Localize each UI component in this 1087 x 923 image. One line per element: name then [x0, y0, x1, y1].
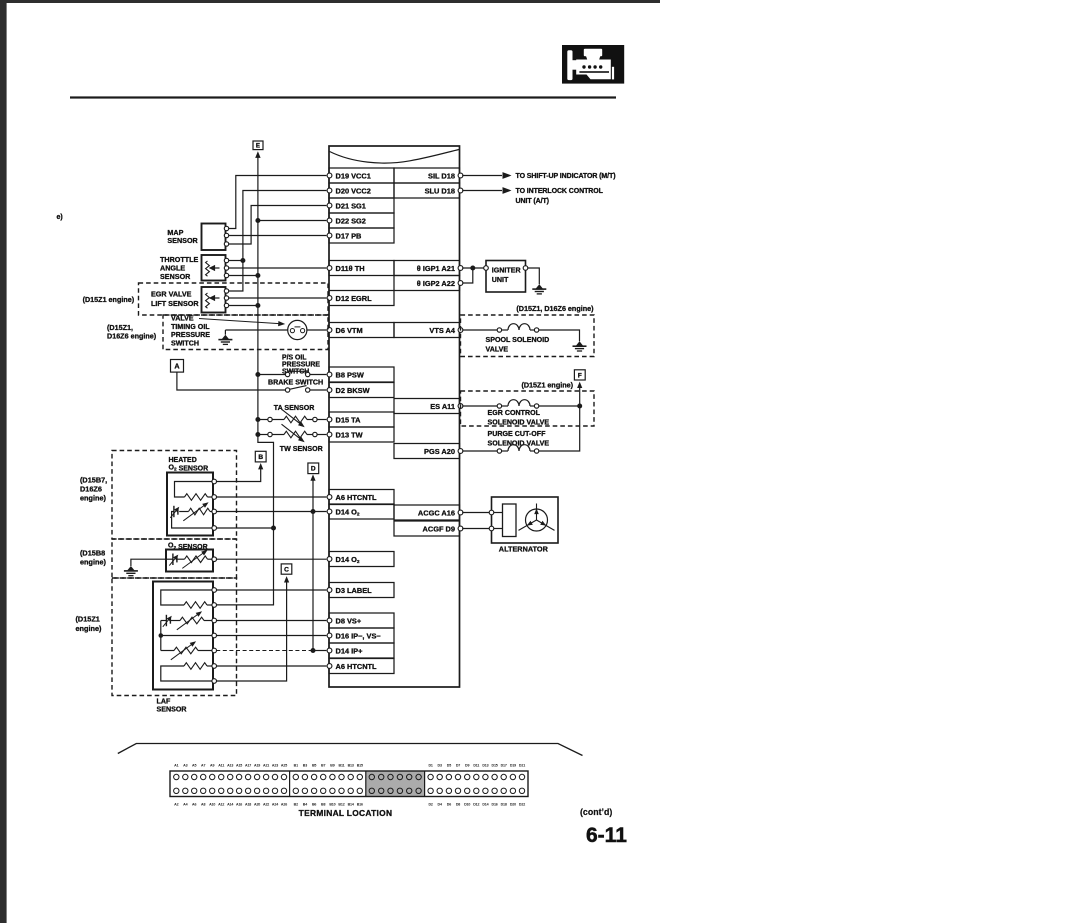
wire D21 SG1 to MAP sensor pin 3 — [229, 206, 327, 245]
ECU pin D15 TA — [327, 412, 394, 427]
svg-text:A9: A9 — [210, 764, 214, 768]
svg-text:SENSOR: SENSOR — [167, 236, 198, 245]
wire IGP2 A22 joining IGP1 — [462, 268, 473, 283]
TW sensor (coolant temperature) — [258, 424, 327, 453]
svg-text:VTS A4: VTS A4 — [429, 326, 455, 335]
wire D17 PB to MAP sensor pin 2 — [229, 235, 327, 237]
svg-text:SWITCH: SWITCH — [171, 340, 199, 348]
wire D19 VCC1 to MAP sensor pin 1 — [229, 176, 327, 229]
svg-text:D2: D2 — [428, 802, 432, 806]
svg-text:SENSOR: SENSOR — [157, 706, 187, 714]
svg-text:θ IGP1 A21: θ IGP1 A21 — [417, 264, 455, 273]
svg-text:(D15Z1 engine): (D15Z1 engine) — [83, 295, 135, 304]
wire VTM switch to ground — [225, 329, 287, 331]
heated O2 sensor — [167, 457, 217, 536]
svg-text:E: E — [256, 143, 260, 150]
svg-text:D17 PB: D17 PB — [336, 232, 362, 241]
wire LAF pin1 to D3 LABEL — [216, 589, 326, 591]
svg-text:D11: D11 — [473, 764, 479, 768]
ECU pin D19 VCC1 — [327, 168, 394, 183]
ECU pin D14 IP+ — [327, 643, 394, 658]
junction D-line at D14 IP+ — [311, 648, 316, 653]
svg-text:B3: B3 — [303, 764, 307, 768]
node E — [253, 141, 263, 150]
svg-text:B12: B12 — [338, 802, 344, 806]
wire throttle sensor pin 3 to ground bus — [229, 275, 258, 277]
svg-text:B16: B16 — [357, 802, 363, 806]
svg-text:D3: D3 — [438, 764, 442, 768]
svg-text:e): e) — [57, 214, 63, 221]
junction IGP wires — [470, 266, 475, 271]
valve timing oil pressure switch variant dashed box (D15Z1, D16Z6 engine) — [107, 314, 328, 349]
junction heater ground on bus — [271, 526, 276, 531]
svg-text:TW SENSOR: TW SENSOR — [280, 445, 323, 453]
svg-text:TO SHIFT-UP INDICATOR (M/T): TO SHIFT-UP INDICATOR (M/T) — [516, 173, 616, 180]
EGR control solenoid variant dashed box (D15Z1 engine) — [461, 380, 595, 426]
wire EGR lift sensor pin 3 to ground bus — [229, 305, 258, 307]
O2 sensor — [166, 543, 217, 572]
svg-text:LAF: LAF — [157, 697, 171, 705]
svg-text:D9: D9 — [465, 764, 469, 768]
svg-text:SIL D18: SIL D18 — [428, 172, 455, 181]
wire LAF pin6 to A6 HTCNTL (second) — [216, 665, 326, 667]
svg-text:A26: A26 — [281, 802, 287, 806]
node F — [574, 370, 585, 380]
engine section icon — [562, 45, 624, 84]
svg-text:B4: B4 — [303, 802, 307, 806]
wire D12 EGRL to EGR lift sensor pin 2 — [229, 297, 327, 299]
svg-text:B6: B6 — [312, 802, 316, 806]
wire heated O2 pin2 to A6 HTCNTL — [216, 496, 326, 498]
ECU pin SLU D18 — [394, 183, 463, 198]
svg-text:D13 TW: D13 TW — [336, 431, 363, 440]
ground at igniter unit — [532, 284, 546, 294]
brake switch — [268, 379, 326, 392]
svg-text:D14 O2: D14 O2 — [336, 555, 360, 565]
junction F line with solenoid wires — [577, 404, 582, 409]
svg-text:A4: A4 — [183, 802, 187, 806]
svg-text:D14: D14 — [482, 802, 488, 806]
wire sensor-ground bus from node E down to LAF sensor — [216, 151, 273, 605]
svg-text:(D15Z1 engine): (D15Z1 engine) — [521, 380, 573, 389]
svg-text:A8: A8 — [201, 802, 205, 806]
ECU pin D17 PB — [327, 228, 394, 243]
svg-text:A12: A12 — [218, 802, 224, 806]
svg-text:A3: A3 — [183, 764, 187, 768]
svg-text:B: B — [258, 454, 263, 461]
svg-text:A15: A15 — [236, 764, 242, 768]
terminal location connector — [170, 764, 528, 807]
svg-text:D8 VS+: D8 VS+ — [336, 617, 362, 626]
svg-text:VALVE: VALVE — [171, 314, 194, 322]
svg-text:D21: D21 — [519, 764, 525, 768]
svg-text:D14 O2: D14 O2 — [336, 508, 360, 518]
svg-text:D17: D17 — [501, 764, 507, 768]
svg-text:D4: D4 — [438, 802, 442, 806]
ECU pin SIL D18 — [394, 168, 463, 183]
alternator — [489, 497, 558, 553]
ECU pin B8 PSW — [327, 367, 394, 382]
wire D20 VCC2 power feed to throttle and EGR sensors — [229, 191, 327, 292]
svg-text:B11: B11 — [339, 764, 345, 768]
wire ACGF D9 to alternator — [462, 528, 489, 530]
svg-text:PRESSURE: PRESSURE — [282, 362, 320, 369]
svg-text:D8: D8 — [456, 802, 460, 806]
EGR control solenoid valve — [462, 400, 579, 427]
svg-text:D19: D19 — [510, 764, 516, 768]
wire LAF pin7 up to node C — [216, 576, 289, 681]
LAF sensor — [153, 582, 217, 714]
node D — [308, 463, 319, 474]
svg-text:A: A — [174, 361, 179, 370]
dash outline above terminal connector — [118, 744, 583, 756]
junction P/S switch on ground bus — [255, 372, 260, 377]
svg-text:D16Z6 engine): D16Z6 engine) — [107, 331, 157, 340]
svg-text:PRESSURE: PRESSURE — [171, 331, 210, 339]
wire D6 VTM to switch — [307, 329, 327, 331]
svg-text:PGS A20: PGS A20 — [424, 447, 455, 456]
svg-text:A24: A24 — [272, 802, 278, 806]
svg-text:engine): engine) — [80, 493, 107, 502]
svg-text:D1: D1 — [428, 764, 432, 768]
svg-text:D11θ TH: D11θ TH — [336, 264, 365, 273]
spool solenoid valve — [462, 324, 579, 354]
svg-text:A5: A5 — [192, 764, 196, 768]
svg-text:B14: B14 — [348, 802, 354, 806]
junction TA sensor on ground bus — [255, 417, 260, 422]
svg-text:TIMING OIL: TIMING OIL — [171, 323, 210, 331]
wire heated O2 pin4 to ground bus — [216, 527, 273, 529]
wire IGP1 A21 to igniter unit — [462, 267, 483, 269]
svg-text:HEATED: HEATED — [169, 457, 197, 464]
svg-text:engine): engine) — [76, 624, 103, 633]
svg-text:D21 SG1: D21 SG1 — [336, 202, 366, 211]
LAF sensor variant dashed box (D15Z1 engine) — [76, 578, 237, 696]
wire O2 sensor to D14 O2 (second) — [216, 558, 326, 560]
node C — [281, 564, 292, 574]
wire SIL D18 to shift-up indicator — [462, 172, 615, 180]
svg-text:ALTERNATOR: ALTERNATOR — [499, 544, 549, 553]
svg-text:D16 IP−, VS−: D16 IP−, VS− — [336, 632, 382, 641]
ECU pin D14 O2 — [327, 504, 394, 519]
svg-text:A17: A17 — [245, 764, 251, 768]
svg-text:A14: A14 — [227, 802, 233, 806]
ECU pin D8 VS+ — [327, 613, 394, 628]
svg-text:A16: A16 — [236, 802, 242, 806]
svg-text:D20: D20 — [510, 802, 516, 806]
svg-text:B8: B8 — [321, 802, 325, 806]
ECU pin D2 BKSW — [327, 383, 394, 398]
svg-text:SOLENOID VALVE: SOLENOID VALVE — [488, 418, 550, 426]
wire D11 TH to throttle sensor pin 2 — [229, 267, 327, 269]
svg-text:A10: A10 — [209, 802, 215, 806]
svg-text:A1: A1 — [174, 764, 178, 768]
ECU pin theta IGP2 A22 — [394, 276, 463, 291]
EGR valve lift sensor variant dashed box (D15Z1 engine) — [83, 283, 328, 315]
svg-text:B9: B9 — [330, 764, 334, 768]
wire ACGC A16 to alternator — [462, 512, 489, 514]
junction inside LAF sensor — [159, 633, 164, 638]
ECU pin D16 IP-,VS- — [327, 628, 394, 643]
svg-text:C: C — [284, 566, 289, 573]
junction EGR ground on bus — [255, 303, 260, 308]
svg-text:EGR VALVE: EGR VALVE — [151, 290, 192, 299]
svg-text:θ IGP2 A22: θ IGP2 A22 — [417, 279, 455, 288]
svg-text:A2: A2 — [174, 802, 178, 806]
svg-text:D16Z6: D16Z6 — [80, 484, 102, 493]
svg-text:ACGF D9: ACGF D9 — [423, 525, 455, 534]
wire LAF pin4 to D16 IP-,VS- — [216, 635, 326, 637]
svg-text:A18: A18 — [245, 802, 251, 806]
svg-text:B2: B2 — [294, 802, 298, 806]
svg-text:TERMINAL LOCATION: TERMINAL LOCATION — [299, 808, 393, 818]
spool solenoid variant dashed box (D15Z1, D16Z6 engine) — [461, 304, 595, 357]
svg-text:D12 EGRL: D12 EGRL — [336, 294, 373, 303]
wire D22 SG2 to ground bus — [258, 220, 327, 222]
svg-text:TA SENSOR: TA SENSOR — [274, 404, 315, 412]
svg-text:6-11: 6-11 — [586, 824, 627, 847]
svg-text:D18: D18 — [501, 802, 507, 806]
node A — [171, 360, 184, 373]
ECU pin D13 TW — [327, 427, 394, 442]
svg-text:A25: A25 — [281, 764, 287, 768]
svg-text:B7: B7 — [321, 764, 325, 768]
ECU pin D21 SG1 — [327, 198, 394, 213]
ground at spool solenoid valve — [573, 341, 587, 351]
EGR valve lift sensor — [151, 287, 229, 313]
svg-text:engine): engine) — [80, 558, 107, 567]
svg-text:A6 HTCNTL: A6 HTCNTL — [336, 493, 378, 502]
junction SG2 on bus — [255, 218, 260, 223]
P/S oil pressure switch — [258, 354, 327, 376]
valve timing oil pressure switch symbol — [288, 320, 307, 339]
svg-text:LIFT SENSOR: LIFT SENSOR — [151, 299, 199, 308]
junction TW sensor on ground bus — [255, 432, 260, 437]
svg-text:(D15B7,: (D15B7, — [80, 476, 107, 485]
ECU pin D3 LABEL — [327, 583, 394, 598]
svg-text:(D15B8: (D15B8 — [80, 548, 105, 557]
TA sensor (intake air temperature) — [258, 404, 327, 427]
ECU pin ES A11 — [394, 399, 463, 414]
svg-text:D6: D6 — [447, 802, 451, 806]
svg-text:TO INTERLOCK CONTROL: TO INTERLOCK CONTROL — [516, 188, 604, 195]
svg-text:D16: D16 — [492, 802, 498, 806]
wire node A to brake switch — [177, 372, 286, 390]
ECU pin D20 VCC2 — [327, 183, 394, 198]
ECU pin D6 VTM — [327, 323, 394, 338]
wire SLU D18 to interlock control unit — [462, 187, 603, 205]
svg-text:D14 IP+: D14 IP+ — [336, 647, 364, 656]
svg-text:SPOOL SOLENOID: SPOOL SOLENOID — [486, 336, 550, 344]
svg-text:EGR CONTROL: EGR CONTROL — [488, 409, 541, 417]
ECU main connector box — [329, 146, 460, 687]
ECU pin VTS A4 — [394, 323, 463, 338]
ECU pin A6 HTCNTL (second) — [327, 659, 394, 674]
node B — [255, 451, 266, 462]
svg-text:A7: A7 — [201, 764, 205, 768]
svg-text:P/S OIL: P/S OIL — [282, 354, 307, 361]
svg-text:A6 HTCNTL: A6 HTCNTL — [336, 662, 378, 671]
svg-text:A6: A6 — [192, 802, 196, 806]
ECU pin ACGF D9 — [394, 521, 463, 536]
svg-text:D22 SG2: D22 SG2 — [336, 217, 366, 226]
wire node D down to D14 rows — [310, 474, 315, 650]
ground at O2 sensor — [124, 566, 138, 576]
ECU pin D12 EGRL — [327, 291, 394, 306]
svg-text:UNIT (A/T): UNIT (A/T) — [516, 198, 549, 205]
svg-text:A11: A11 — [218, 764, 224, 768]
svg-text:B5: B5 — [312, 764, 316, 768]
ECU pin A6 HTCNTL — [327, 490, 394, 505]
svg-text:D22: D22 — [519, 802, 525, 806]
svg-text:VALVE: VALVE — [486, 346, 509, 354]
svg-text:(cont’d): (cont’d) — [580, 807, 612, 817]
wire heated O2 pin1 up to node B — [216, 463, 263, 482]
wire igniter to ground — [528, 268, 540, 284]
ECU pin D11 theta-TH — [327, 261, 394, 276]
svg-text:D5: D5 — [447, 764, 451, 768]
svg-text:(D15Z1: (D15Z1 — [76, 615, 100, 624]
node F feed wire — [577, 382, 582, 406]
wire LAF pin5 (dashed) to D14 IP+ — [216, 650, 326, 652]
svg-text:D13: D13 — [482, 764, 488, 768]
svg-text:B1: B1 — [294, 764, 298, 768]
svg-text:D6 VTM: D6 VTM — [336, 326, 363, 335]
wire O2 sensor to ground — [131, 559, 166, 566]
MAP sensor — [167, 224, 228, 251]
svg-text:D20 VCC2: D20 VCC2 — [336, 187, 371, 196]
svg-text:ACGC A16: ACGC A16 — [418, 509, 455, 518]
svg-text:A23: A23 — [272, 764, 278, 768]
svg-text:D12: D12 — [473, 802, 479, 806]
O2 sensor variant dashed box (D15B8 engine) — [80, 539, 237, 578]
svg-text:F: F — [578, 372, 582, 379]
heated O2 sensor variant dashed box (D15B7, D16Z6 engine) — [80, 451, 237, 540]
svg-text:A21: A21 — [263, 764, 269, 768]
wire heated O2 pin3 to D14 O2 — [216, 511, 326, 513]
svg-text:B15: B15 — [357, 764, 363, 768]
junction on VCC2 feed at throttle sensor — [240, 258, 245, 263]
junction throttle ground on bus — [255, 273, 260, 278]
svg-text:(D15Z1, D16Z6 engine): (D15Z1, D16Z6 engine) — [516, 304, 594, 313]
svg-text:B8 PSW: B8 PSW — [336, 371, 364, 380]
svg-text:A19: A19 — [254, 764, 260, 768]
svg-text:PURGE CUT-OFF: PURGE CUT-OFF — [488, 430, 547, 438]
svg-text:D15 TA: D15 TA — [336, 416, 362, 425]
svg-text:D19 VCC1: D19 VCC1 — [336, 172, 371, 181]
svg-text:SENSOR: SENSOR — [160, 272, 191, 281]
junction D-line at D14 O2 — [311, 509, 316, 514]
svg-text:D2 BKSW: D2 BKSW — [336, 386, 370, 395]
svg-text:A20: A20 — [254, 802, 260, 806]
svg-text:D3 LABEL: D3 LABEL — [336, 586, 373, 595]
svg-text:D10: D10 — [464, 802, 470, 806]
svg-text:SOLENOID VALVE: SOLENOID VALVE — [488, 439, 550, 447]
svg-text:A13: A13 — [227, 764, 233, 768]
ECU pin theta IGP1 A21 — [394, 261, 463, 276]
svg-text:A22: A22 — [263, 802, 269, 806]
svg-text:B10: B10 — [329, 802, 335, 806]
leader arrow from VALVE label to switch symbol — [199, 319, 285, 327]
svg-text:IGNITER: IGNITER — [492, 266, 521, 274]
svg-text:B13: B13 — [348, 764, 354, 768]
ground at valve timing oil pressure switch — [218, 330, 232, 344]
igniter unit U1 — [484, 261, 528, 293]
purge cut-off solenoid valve — [462, 406, 579, 453]
ECU pin D14 O2 (second) — [327, 552, 394, 567]
wire LAF pin3 to D8 VS+ — [216, 620, 326, 622]
svg-text:D: D — [311, 466, 316, 473]
svg-text:D7: D7 — [456, 764, 460, 768]
svg-text:BRAKE SWITCH: BRAKE SWITCH — [268, 379, 323, 387]
throttle angle sensor — [160, 255, 229, 281]
svg-text:D15: D15 — [492, 764, 498, 768]
torn-edge squiggle at top of ECU — [330, 150, 459, 164]
svg-text:ES A11: ES A11 — [430, 402, 455, 411]
ECU pin ACGC A16 — [394, 505, 463, 520]
ECU pin D22 SG2 — [327, 213, 394, 228]
svg-text:UNIT: UNIT — [492, 276, 509, 284]
ECU pin PGS A20 — [394, 444, 463, 459]
svg-text:SLU D18: SLU D18 — [425, 187, 455, 196]
